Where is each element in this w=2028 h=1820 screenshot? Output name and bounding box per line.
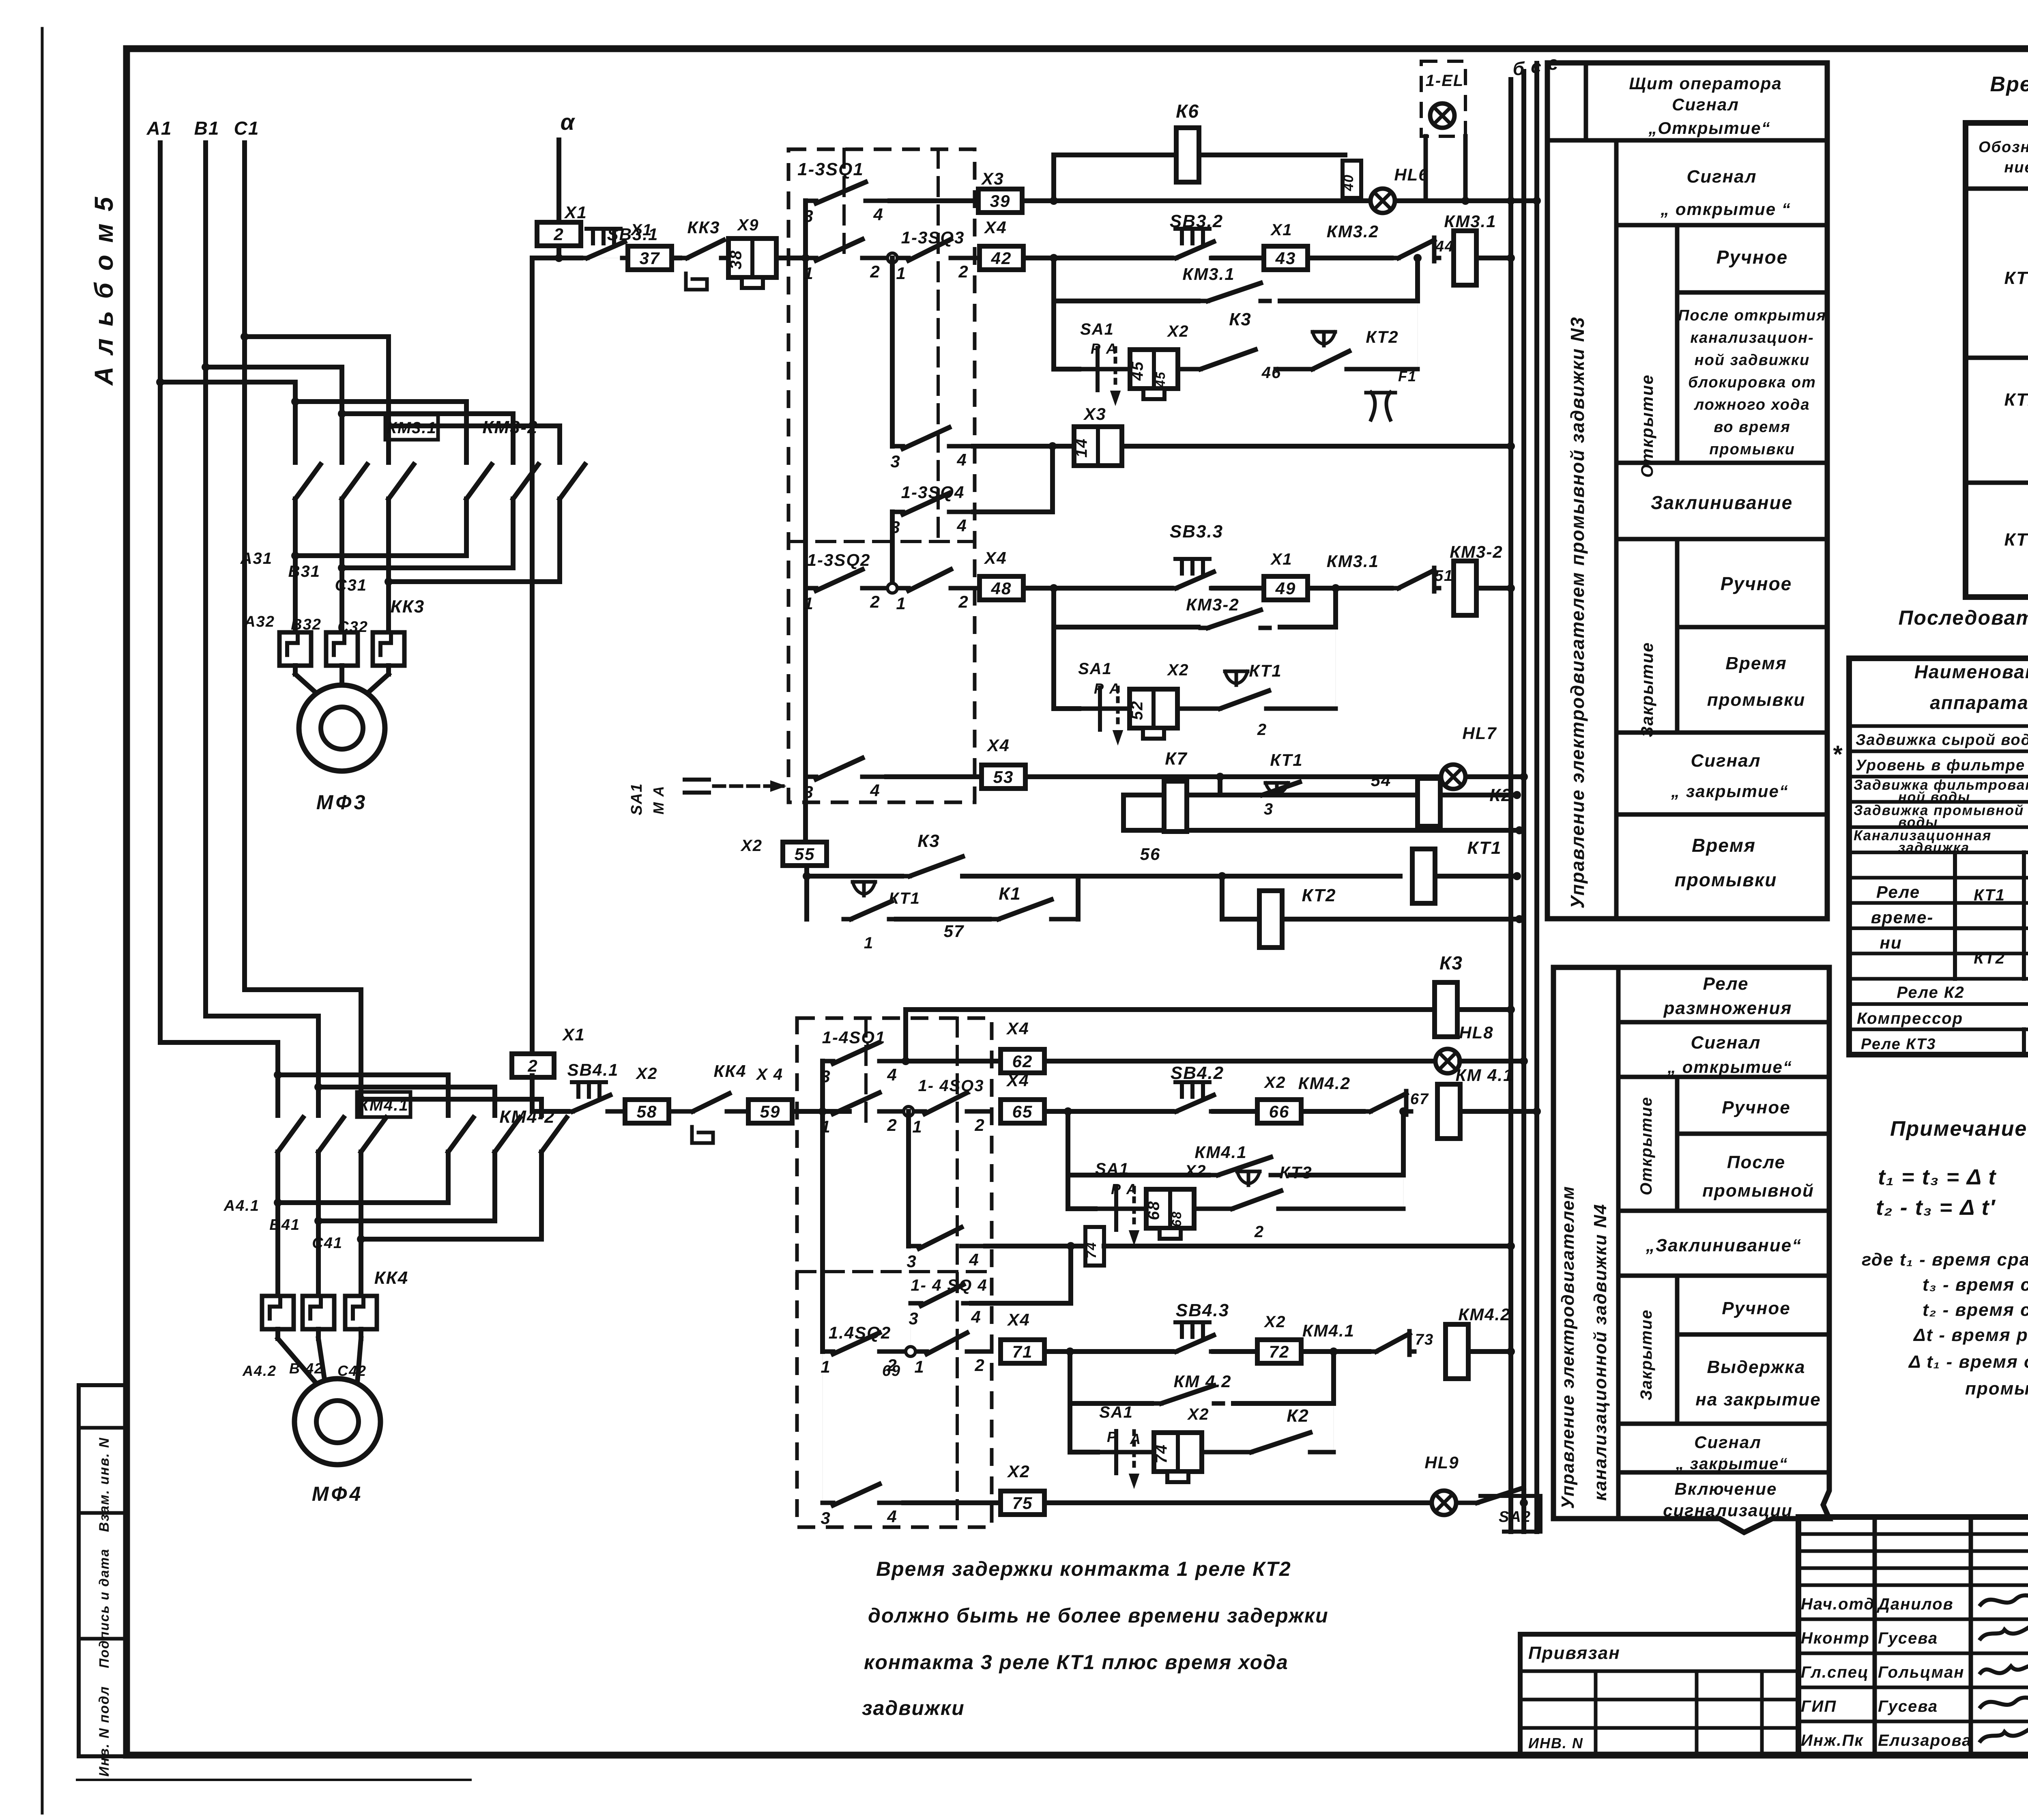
title block sign table (1873, 1517, 1877, 1755)
svg-text:КМ 4.1: КМ 4.1 (1456, 1066, 1514, 1085)
svg-text:„ закрытие“: „ закрытие“ (1671, 782, 1789, 801)
svg-text:t₃ - время срабатывания кон: t₃ - время срабатывания контакта 3 реле … (1923, 1275, 2028, 1295)
svg-text:SА1: SА1 (1095, 1160, 1129, 1178)
vertical from node to R5 (890, 258, 895, 446)
svg-text:4: 4 (969, 1250, 979, 1269)
svg-text:А л ь б о м 5: А л ь б о м 5 (89, 195, 118, 386)
svg-text:SВ4.2: SВ4.2 (1171, 1063, 1224, 1083)
svg-text:Взам. инв. N: Взам. инв. N (97, 1437, 112, 1532)
node SQ3 junction (887, 253, 897, 263)
svg-text:„ закрытие“: „ закрытие“ (1676, 1455, 1788, 1473)
wire R6b (1308, 586, 1391, 591)
lamp 1-EL dashed box (1421, 61, 1465, 136)
pressure symbol F1 (1371, 392, 1390, 420)
svg-text:49: 49 (1275, 579, 1296, 598)
svg-text:Последовательность работы ап: Последовательность работы аппаратов филь… (1898, 606, 2028, 629)
svg-text:аппарата: аппарата (1930, 692, 2028, 713)
svg-text:блокировка от: блокировка от (1688, 374, 1816, 391)
svg-text:Гусева: Гусева (1878, 1698, 1938, 1715)
svg-text:ние: ние (2004, 159, 2028, 176)
loop R10 (1121, 795, 1126, 830)
wire R6 (1023, 586, 1171, 591)
branch SA1 row L10 (1070, 1450, 1098, 1455)
svg-text:К6: К6 (1176, 101, 1199, 122)
title block frame (1798, 1517, 2028, 1755)
svg-text:КМ3.1: КМ3.1 (387, 419, 437, 437)
vertical R5b (1050, 446, 1055, 512)
wire L2 right (1044, 1059, 1435, 1064)
svg-text:А1: А1 (146, 118, 172, 139)
svg-text:МФ4: МФ4 (312, 1483, 363, 1505)
svg-text:Гл.спец: Гл.спец (1801, 1663, 1869, 1681)
node SQ2 junction lower (906, 1347, 915, 1356)
wire R5 (973, 444, 1076, 449)
svg-text:4: 4 (956, 516, 967, 535)
svg-text:1: 1 (803, 594, 814, 613)
thermal contact KK3 (672, 256, 680, 260)
branch KM3-2 selfhold (1051, 588, 1056, 709)
table2 relay block dividers (1953, 853, 1957, 979)
svg-text:Елизарова: Елизарова (1878, 1732, 1972, 1749)
svg-text:3: 3 (909, 1309, 919, 1328)
rail c (1521, 71, 1526, 1532)
svg-text:Сигнал: Сигнал (1691, 1033, 1761, 1053)
feeders to KM4-2 contacts (278, 1072, 448, 1077)
svg-text:Привязан: Привязан (1528, 1643, 1620, 1663)
svg-text:ни: ни (1880, 933, 1902, 952)
svg-text:51: 51 (1435, 567, 1453, 584)
node B31 (511, 529, 516, 568)
wire alpha (556, 140, 561, 223)
tap A1 to KM3 contacts (160, 380, 295, 385)
wire to lower ladder (532, 256, 559, 260)
wire 1-EL to R1 (1424, 136, 1428, 201)
bus B1 (203, 143, 208, 1016)
svg-text:Реле К2: Реле К2 (1897, 984, 1964, 1001)
svg-text:КМ4.2: КМ4.2 (1298, 1074, 1351, 1093)
table2 outer (1849, 658, 2028, 1055)
wire R1 right (1022, 198, 1537, 203)
svg-text:1-3SQ2: 1-3SQ2 (807, 550, 871, 570)
svg-text:КМ3.2: КМ3.2 (1327, 222, 1379, 241)
svg-text:56: 56 (1140, 844, 1161, 864)
svg-text:4: 4 (870, 781, 880, 800)
svg-text:46: 46 (1261, 364, 1282, 382)
svg-text:Управление электродвигателем: Управление электродвигателем промывной з… (1567, 316, 1588, 909)
svg-text:SВ4.1: SВ4.1 (567, 1060, 619, 1079)
svg-text:Сигнал: Сигнал (1691, 751, 1761, 771)
svg-text:Х2: Х2 (1264, 1074, 1286, 1092)
svg-text:Инв. N подл: Инв. N подл (97, 1686, 112, 1777)
svg-text:„Открытие“: „Открытие“ (1648, 118, 1770, 138)
svg-text:промывкой: промывкой (1965, 1379, 2028, 1399)
svg-text:Открытие: Открытие (1637, 1096, 1655, 1195)
svg-text:Х4: Х4 (1006, 1071, 1029, 1090)
svg-text:Х 4: Х 4 (756, 1066, 783, 1083)
svg-text:К2: К2 (1287, 1406, 1309, 1426)
svg-text:2: 2 (958, 262, 969, 281)
svg-text:где t₁ - время срабатывания: где t₁ - время срабатывания контакта 1 р… (1862, 1250, 2028, 1270)
bend A1 to KM4 (160, 1040, 278, 1045)
svg-text:Х4: Х4 (1007, 1310, 1030, 1329)
svg-text:37: 37 (640, 249, 660, 268)
svg-text:Х4: Х4 (986, 736, 1010, 755)
svg-text:промывной: промывной (1702, 1181, 1814, 1201)
svg-text:Время задержки контакта 1: Время задержки контакта 1 реле КТ2 (876, 1558, 1291, 1580)
svg-text:SА1: SА1 (1099, 1403, 1133, 1421)
wire R2b (1308, 256, 1391, 260)
svg-text:Реле КТ3: Реле КТ3 (1861, 1036, 1936, 1053)
svg-text:КМ3.1: КМ3.1 (1444, 212, 1496, 231)
svg-text:Наименование: Наименование (1914, 661, 2028, 682)
wire R10 riser (1218, 777, 1222, 795)
svg-text:„ открытие “: „ открытие “ (1660, 200, 1791, 219)
svg-text:Х1: Х1 (630, 221, 653, 239)
svg-text:К1: К1 (999, 884, 1021, 904)
svg-text:4: 4 (887, 1065, 897, 1084)
svg-text:Щит оператора: Щит оператора (1629, 74, 1782, 93)
svg-text:В31: В31 (288, 563, 320, 580)
svg-text:Время: Время (1725, 653, 1787, 673)
svg-text:КМ4.2: КМ4.2 (1458, 1305, 1510, 1324)
svg-text:В41: В41 (269, 1216, 300, 1233)
bus C1 (242, 143, 247, 990)
svg-text:КК4: КК4 (374, 1268, 409, 1288)
svg-text:68: 68 (1145, 1201, 1163, 1220)
svg-text:69: 69 (882, 1362, 901, 1380)
svg-text:2: 2 (958, 592, 969, 611)
svg-text:39: 39 (990, 191, 1011, 211)
wire L3 (1044, 1109, 1172, 1114)
svg-text:2: 2 (974, 1356, 985, 1375)
svg-text:48: 48 (991, 579, 1012, 598)
thermal relay KK4 heaters (262, 1296, 294, 1329)
node SQ2 junction (887, 583, 897, 593)
wire L11 right (1044, 1500, 1432, 1505)
svg-text:68: 68 (1169, 1211, 1184, 1227)
function strip lower (1553, 967, 1829, 1532)
svg-text:Включение: Включение (1675, 1479, 1777, 1498)
svg-text:К7: К7 (1165, 749, 1188, 769)
svg-text:2: 2 (870, 262, 880, 281)
svg-text:Ручное: Ручное (1722, 1298, 1790, 1318)
svg-text:контакта 3 реле КТ1 плюс: контакта 3 реле КТ1 плюс время хода (864, 1651, 1289, 1674)
svg-text:Управление электродвигателем: Управление электродвигателем (1558, 1186, 1578, 1509)
svg-text:Обозначе-: Обозначе- (1979, 139, 2028, 156)
contactor KM4.1 main contacts (278, 1117, 303, 1152)
svg-text:ГИП: ГИП (1801, 1698, 1837, 1715)
feeders to KM3-2 contacts (295, 399, 466, 404)
svg-text:КТ1: КТ1 (1270, 750, 1303, 769)
table1 grid (1966, 123, 2028, 597)
svg-text:Реле: Реле (1876, 883, 1920, 902)
svg-text:3: 3 (890, 452, 900, 471)
wire R12 riser (804, 876, 809, 919)
svg-text:SА1: SА1 (1078, 660, 1112, 678)
push button SB3.1 (559, 256, 581, 260)
svg-text:74: 74 (1084, 1242, 1099, 1259)
svg-text:52: 52 (1128, 700, 1146, 720)
svg-text:Сигнал: Сигнал (1694, 1433, 1762, 1452)
svg-text:Х2: Х2 (1264, 1313, 1286, 1331)
svg-text:Заклинивание: Заклинивание (1651, 492, 1793, 513)
svg-text:КТ1: КТ1 (2004, 268, 2028, 288)
rail b (1508, 80, 1513, 1532)
svg-text:сигнализации: сигнализации (1663, 1501, 1793, 1520)
wire L2 (906, 1059, 1001, 1064)
switch assembly 1-3SQ1 dashed box (788, 149, 975, 802)
node B41 (492, 1182, 497, 1221)
terminal 40 box (1343, 161, 1361, 198)
svg-text:Примечание к табл. 1: Примечание к табл. 1 (1890, 1117, 2028, 1141)
svg-text:М А: М А (650, 785, 667, 814)
svg-text:t₂ - t₃ = Δ t′: t₂ - t₃ = Δ t′ (1876, 1195, 1996, 1220)
svg-text:К2: К2 (1489, 785, 1512, 805)
svg-text:КМ4.1: КМ4.1 (359, 1096, 409, 1114)
svg-text:НL9: НL9 (1424, 1453, 1459, 1472)
svg-text:Нач.отд: Нач.отд (1801, 1595, 1875, 1613)
bend B1 to KM4 (206, 1014, 318, 1019)
svg-text:Х1: Х1 (562, 1025, 585, 1044)
branch SA1 row R8 (1054, 706, 1079, 711)
svg-text:С31: С31 (335, 576, 367, 594)
svg-text:КМ3-2: КМ3-2 (1186, 595, 1240, 614)
svg-text:КТ2: КТ2 (1974, 950, 2005, 967)
bus A1 (158, 143, 163, 1042)
motor MF4 (294, 1379, 380, 1465)
svg-text:40: 40 (1341, 174, 1356, 191)
left margin strip (79, 1385, 127, 1756)
svg-text:Δt - время работы компрес: Δt - время работы компрессора (1913, 1325, 2028, 1345)
svg-text:43: 43 (1275, 249, 1296, 268)
svg-text:Х2: Х2 (636, 1065, 658, 1083)
svg-text:1: 1 (864, 934, 874, 952)
svg-text:задвижки: задвижки (862, 1697, 965, 1719)
wire L3b (1301, 1109, 1363, 1114)
svg-text:задвижка: задвижка (1898, 840, 1970, 855)
tap B1 to KM3 contacts (206, 365, 342, 370)
thermal relay KK3 heaters (279, 632, 311, 666)
motor MF3 (299, 685, 385, 771)
svg-text:Х4: Х4 (1006, 1019, 1029, 1038)
svg-text:Δ t₁ - время опорожнения ф: Δ t₁ - время опорожнения фильтра (ко) пе… (1908, 1352, 2028, 1372)
wire R1 (890, 198, 978, 203)
svg-text:4: 4 (956, 450, 967, 469)
svg-text:НL7: НL7 (1462, 724, 1497, 743)
svg-text:1: 1 (896, 264, 906, 283)
svg-text:1- 4SQ3: 1- 4SQ3 (918, 1077, 984, 1095)
relay K6 branch (1051, 155, 1056, 201)
svg-text:75: 75 (1012, 1493, 1033, 1513)
svg-text:Закрытие: Закрытие (1637, 642, 1656, 737)
svg-text:време-: време- (1871, 908, 1934, 927)
svg-text:3: 3 (821, 1067, 831, 1086)
svg-text:КК3: КК3 (687, 218, 720, 237)
svg-text:КТ3: КТ3 (2004, 530, 2028, 550)
svg-text:КТ1: КТ1 (1467, 838, 1502, 858)
node A31 (464, 529, 469, 556)
contactor KM4.1 label (357, 1092, 410, 1117)
node A4.1 (446, 1182, 451, 1203)
svg-text:57: 57 (944, 922, 965, 941)
wire L11 (904, 1500, 1001, 1505)
svg-text:2: 2 (974, 1115, 985, 1135)
svg-text:Х1: Х1 (1270, 550, 1293, 568)
svg-text:2: 2 (1257, 721, 1267, 739)
svg-text:Задвижка промывной: Задвижка промывной (1854, 802, 2024, 818)
wire R2 (1023, 256, 1171, 260)
svg-text:промывки: промывки (1709, 441, 1795, 458)
svg-text:КМ3.1: КМ3.1 (1327, 552, 1379, 571)
svg-text:А31: А31 (240, 550, 273, 567)
svg-text:Х4: Х4 (984, 548, 1007, 567)
contactor KM3.1 label (385, 415, 438, 440)
branch KM4.2 selfhold (1068, 1352, 1072, 1452)
svg-text:Задвижка сырой воды: Задвижка сырой воды (1856, 732, 2028, 749)
svg-text:Время: Время (1692, 835, 1756, 856)
switch assembly 1-4SQ dashed box (797, 1018, 992, 1527)
branch KM4.1 selfhold (1066, 1111, 1070, 1209)
svg-text:Закрытие: Закрытие (1637, 1309, 1655, 1400)
svg-text:SВ3.3: SВ3.3 (1170, 522, 1223, 541)
svg-text:„ открытие“: „ открытие“ (1667, 1057, 1792, 1077)
svg-text:Компрессор: Компрессор (1857, 1010, 1963, 1027)
sheet edge line left (41, 28, 44, 1813)
svg-text:Нконтр: Нконтр (1801, 1629, 1870, 1647)
svg-text:1: 1 (914, 1357, 924, 1376)
svg-text:SА1: SА1 (628, 783, 645, 815)
svg-text:Уровень в фильтре: Уровень в фильтре (1856, 757, 2025, 774)
svg-text:Подпись и дата: Подпись и дата (97, 1548, 112, 1668)
svg-text:71: 71 (1012, 1342, 1033, 1361)
wire R10 (1124, 793, 1517, 797)
svg-text:1: 1 (912, 1117, 922, 1136)
svg-text:Сигнал: Сигнал (1672, 95, 1739, 114)
svg-text:После открытия: После открытия (1678, 307, 1826, 324)
svg-text:КМ4.1: КМ4.1 (1194, 1143, 1247, 1162)
svg-text:α: α (561, 109, 576, 135)
svg-text:КТ1: КТ1 (889, 890, 920, 907)
svg-text:t₁ = t₃ = Δ t: t₁ = t₃ = Δ t (1878, 1165, 1996, 1189)
svg-text:К3: К3 (1229, 309, 1252, 329)
svg-text:К3: К3 (917, 831, 940, 851)
left rail lower ladder (820, 1061, 825, 1352)
branch SA1 PA row R4 (1054, 367, 1079, 372)
svg-text:Выдержка: Выдержка (1707, 1357, 1805, 1377)
wire R9 right (1025, 774, 1524, 779)
wire L8b (1301, 1349, 1369, 1354)
svg-text:Х2: Х2 (1187, 1405, 1209, 1423)
wire L1 (903, 1010, 908, 1061)
svg-text:Ручное: Ручное (1722, 1098, 1790, 1117)
svg-text:SА2: SА2 (1499, 1508, 1531, 1526)
svg-text:С32: С32 (337, 619, 368, 636)
svg-text:66: 66 (1269, 1102, 1290, 1121)
svg-text:38: 38 (727, 250, 745, 270)
svg-text:С1: С1 (234, 118, 260, 139)
svg-text:SА1: SА1 (1080, 320, 1114, 338)
svg-text:ИНВ. N: ИНВ. N (1528, 1735, 1583, 1751)
contactor KM4-2 main contacts (448, 1117, 473, 1152)
svg-text:МФ3: МФ3 (316, 791, 368, 814)
svg-text:Х9: Х9 (737, 216, 759, 234)
svg-text:КТ2: КТ2 (1302, 885, 1336, 905)
svg-text:42: 42 (991, 249, 1012, 268)
svg-text:Х3: Х3 (1083, 404, 1106, 423)
svg-text:В32: В32 (291, 616, 322, 633)
svg-text:1: 1 (821, 1357, 831, 1376)
branch SA1 row L5 (1068, 1206, 1095, 1211)
svg-text:промывки: промывки (1675, 869, 1777, 890)
svg-text:К3: К3 (1439, 952, 1463, 973)
svg-text:3: 3 (907, 1252, 917, 1271)
connector X3-74 (1085, 1227, 1104, 1266)
svg-text:55: 55 (795, 844, 815, 864)
svg-text:62: 62 (1012, 1052, 1033, 1071)
svg-text:4: 4 (887, 1507, 897, 1526)
svg-text:ной задвижки: ной задвижки (1695, 352, 1810, 369)
scan fold line bottom-left (77, 1779, 470, 1781)
svg-text:2: 2 (1254, 1223, 1264, 1241)
svg-text:72: 72 (1269, 1342, 1290, 1361)
svg-text:1-3SQ1: 1-3SQ1 (797, 159, 864, 179)
svg-text:3: 3 (821, 1508, 831, 1528)
wire R4 to selfhold (1354, 367, 1418, 372)
svg-text:1: 1 (896, 594, 906, 613)
svg-text:КМ3.1: КМ3.1 (1182, 264, 1235, 284)
svg-text:КТ2: КТ2 (2004, 390, 2028, 410)
svg-text:SВ4.3: SВ4.3 (1176, 1300, 1229, 1320)
wire R11 (804, 866, 809, 876)
node C31 (557, 529, 562, 582)
svg-text:Открытие: Открытие (1637, 374, 1656, 477)
lamp 1-EL (1430, 103, 1454, 128)
svg-text:Х2: Х2 (1167, 661, 1189, 679)
terminal X1-2 upper (537, 222, 581, 246)
svg-text:во время: во время (1714, 419, 1791, 436)
wire L2 start (904, 1059, 906, 1064)
svg-text:ложного хода: ложного хода (1693, 396, 1810, 413)
svg-text:Гольцман: Гольцман (1878, 1663, 1964, 1681)
contactor KM3-2 main contacts (466, 464, 492, 499)
wire L6 right (1104, 1244, 1511, 1248)
svg-text:Гусева: Гусева (1878, 1629, 1938, 1647)
svg-text:14: 14 (1073, 438, 1091, 458)
bend C1 to KM4 (245, 987, 361, 992)
svg-text:3: 3 (1264, 800, 1274, 818)
svg-text:1: 1 (803, 264, 814, 283)
svg-text:КК4: КК4 (714, 1061, 747, 1081)
svg-text:Х2: Х2 (1007, 1462, 1030, 1481)
wire R9 (887, 774, 982, 779)
svg-text:45: 45 (1153, 371, 1168, 388)
svg-text:А4.2: А4.2 (242, 1362, 277, 1379)
svg-text:промывки: промывки (1707, 690, 1806, 710)
svg-text:В1: В1 (194, 118, 220, 139)
svg-text:Х2: Х2 (740, 837, 763, 855)
svg-text:Х1: Х1 (564, 203, 587, 222)
svg-text:размножения: размножения (1663, 998, 1792, 1018)
svg-text:Реле: Реле (1703, 974, 1749, 994)
privyazan block (1520, 1634, 1798, 1755)
wire L8 (1044, 1349, 1172, 1354)
svg-text:Х1: Х1 (1270, 221, 1293, 239)
svg-text:Данилов: Данилов (1877, 1595, 1954, 1613)
svg-text:Х4: Х4 (984, 218, 1007, 237)
svg-text:КК3: КК3 (391, 597, 425, 617)
svg-text:должно быть не более врем: должно быть не более времени задержки (868, 1604, 1329, 1627)
svg-text:Сигнал: Сигнал (1686, 167, 1757, 187)
